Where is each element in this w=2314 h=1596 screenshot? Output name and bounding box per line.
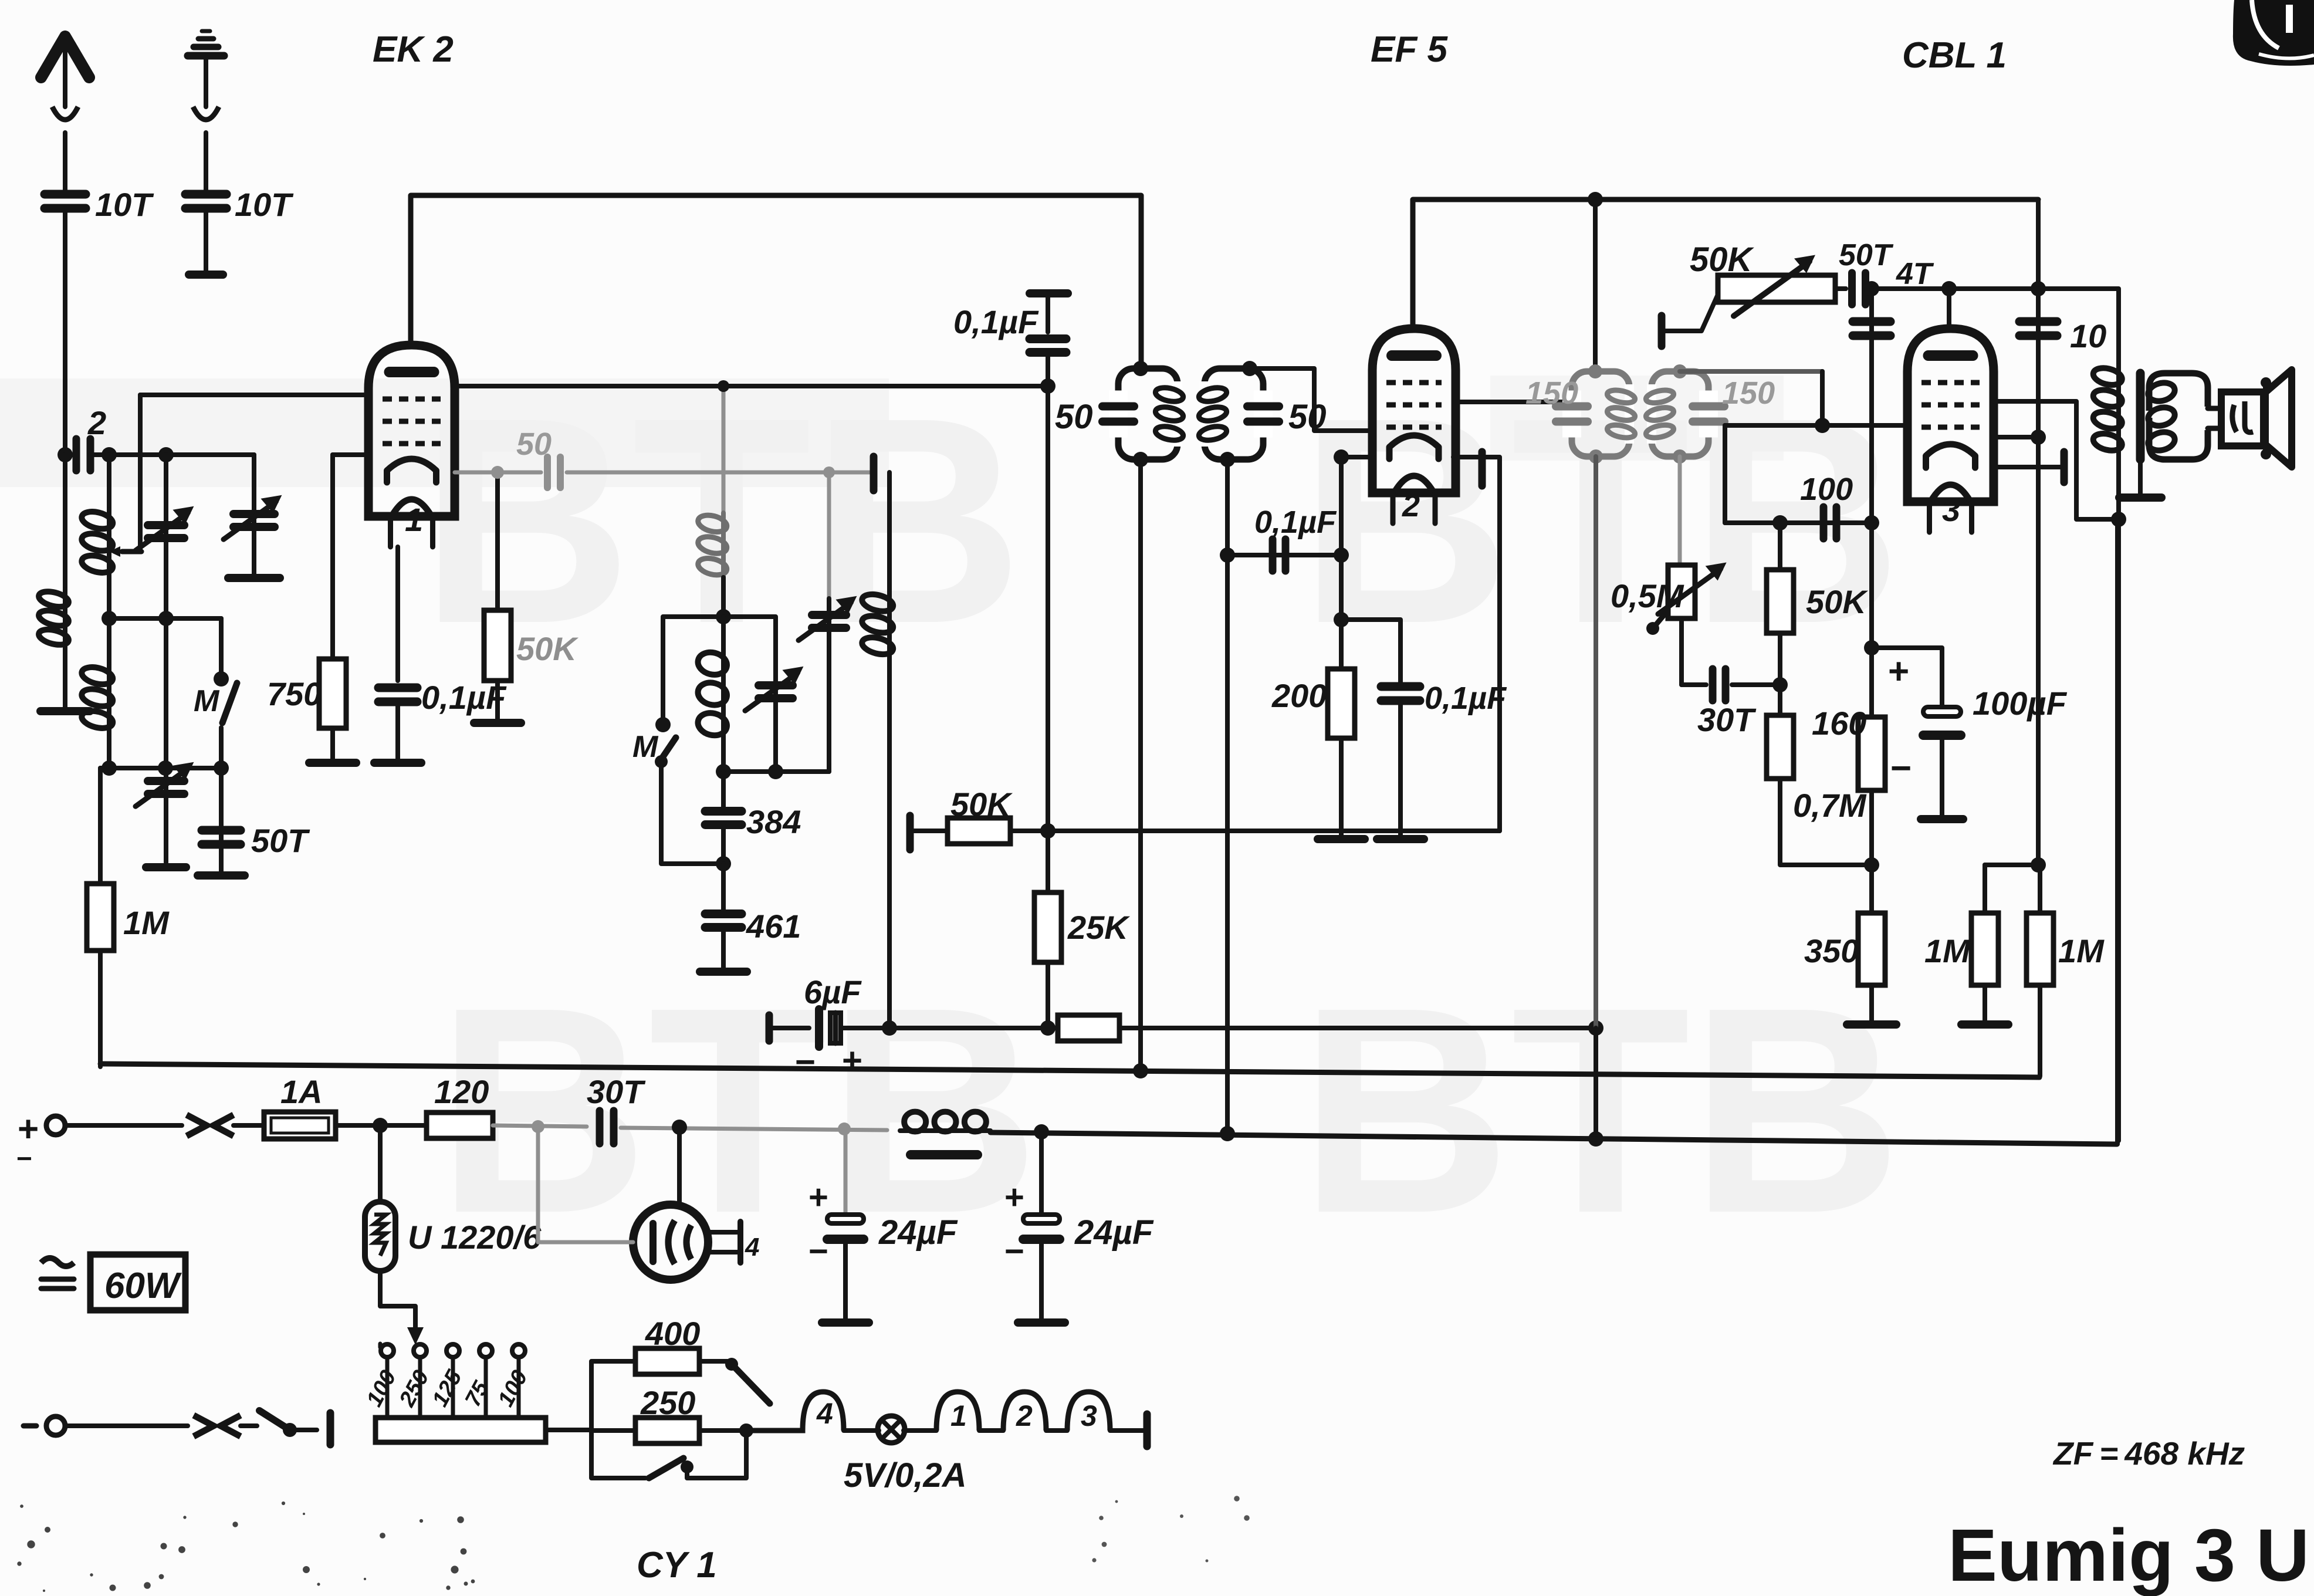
svg-text:384: 384	[746, 803, 801, 840]
svg-text:0,1µF: 0,1µF	[1425, 681, 1507, 716]
svg-text:3: 3	[1081, 1399, 1097, 1432]
svg-text:50K: 50K	[950, 786, 1013, 823]
svg-text:0,5M: 0,5M	[1611, 577, 1684, 614]
svg-text:BTB: BTB	[1299, 946, 1902, 1274]
svg-text:6µF: 6µF	[804, 973, 862, 1010]
svg-text:0,1µF: 0,1µF	[1254, 505, 1337, 540]
svg-text:−: −	[1890, 748, 1912, 789]
svg-text:+: +	[1888, 651, 1909, 692]
svg-text:4T: 4T	[1896, 257, 1934, 291]
svg-text:50T: 50T	[251, 822, 310, 859]
svg-text:400: 400	[645, 1315, 700, 1352]
svg-text:10T: 10T	[235, 186, 294, 223]
svg-text:200: 200	[1271, 677, 1327, 714]
svg-text:1: 1	[950, 1399, 967, 1432]
svg-text:1A: 1A	[280, 1073, 323, 1110]
svg-text:U 1220/6: U 1220/6	[408, 1219, 542, 1256]
svg-text:60W: 60W	[104, 1266, 182, 1306]
svg-text:3: 3	[1942, 491, 1960, 528]
svg-text:0,1µF: 0,1µF	[421, 679, 507, 716]
svg-text:−: −	[808, 1232, 828, 1270]
svg-text:50: 50	[1055, 398, 1093, 436]
svg-text:Eumig 3 U: Eumig 3 U	[1948, 1514, 2309, 1596]
svg-text:−: −	[16, 1143, 32, 1174]
svg-text:1: 1	[405, 501, 423, 538]
svg-text:160: 160	[1812, 705, 1866, 742]
svg-text:2: 2	[1402, 488, 1420, 523]
svg-text:4: 4	[745, 1233, 759, 1262]
svg-text:EK 2: EK 2	[373, 29, 454, 70]
svg-text:1M: 1M	[2058, 932, 2105, 969]
svg-text:120: 120	[434, 1073, 489, 1110]
svg-text:24µF: 24µF	[878, 1213, 958, 1252]
svg-text:2: 2	[1016, 1399, 1033, 1432]
svg-text:150: 150	[1722, 376, 1775, 411]
svg-text:350: 350	[1804, 932, 1859, 969]
svg-text:1M: 1M	[1924, 932, 1971, 969]
svg-text:50: 50	[516, 427, 552, 462]
svg-text:−: −	[795, 1042, 816, 1081]
svg-text:ZF = 468 kHz: ZF = 468 kHz	[2052, 1435, 2245, 1472]
svg-text:25K: 25K	[1067, 909, 1130, 946]
svg-text:24µF: 24µF	[1074, 1213, 1154, 1252]
svg-text:+: +	[1004, 1178, 1024, 1216]
svg-text:EF 5: EF 5	[1371, 29, 1448, 70]
svg-text:M: M	[194, 684, 220, 718]
svg-text:+: +	[808, 1178, 828, 1216]
svg-text:150: 150	[1525, 376, 1578, 411]
svg-text:10: 10	[2070, 317, 2106, 354]
svg-text:CBL 1: CBL 1	[1902, 35, 2007, 76]
svg-text:30T: 30T	[587, 1073, 646, 1110]
svg-text:−: −	[1004, 1232, 1024, 1270]
svg-text:461: 461	[746, 908, 801, 945]
svg-text:750: 750	[267, 675, 322, 712]
svg-text:50K: 50K	[516, 630, 578, 667]
svg-text:1M: 1M	[123, 904, 170, 941]
svg-text:2: 2	[87, 404, 106, 441]
svg-text:CY 1: CY 1	[637, 1545, 717, 1585]
svg-text:0,1µF: 0,1µF	[953, 303, 1039, 340]
svg-text:10T: 10T	[95, 186, 154, 223]
svg-text:100: 100	[1800, 472, 1853, 507]
svg-text:4: 4	[816, 1397, 833, 1430]
svg-text:M: M	[632, 730, 659, 764]
svg-text:250: 250	[640, 1384, 695, 1421]
svg-text:30T: 30T	[1697, 701, 1757, 738]
svg-text:50T: 50T	[1839, 238, 1894, 272]
svg-text:5V/0,2A: 5V/0,2A	[844, 1456, 967, 1494]
svg-text:50K: 50K	[1806, 583, 1868, 620]
svg-text:+: +	[842, 1041, 862, 1080]
svg-text:100µF: 100µF	[1973, 685, 2068, 722]
